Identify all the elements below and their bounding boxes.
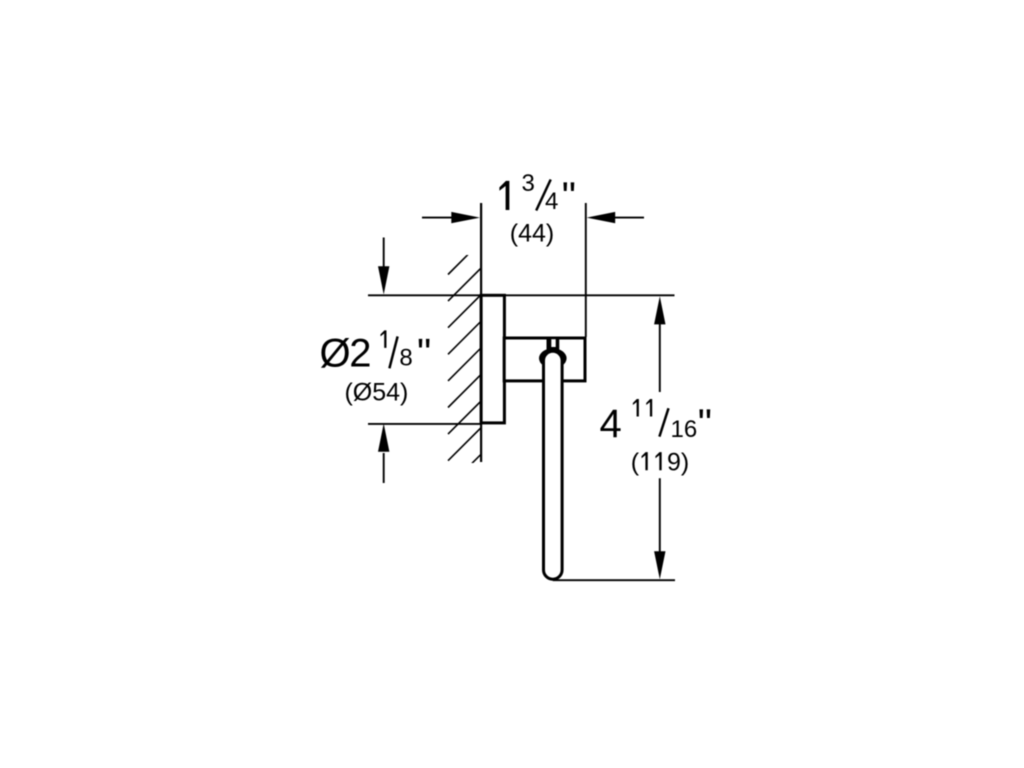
svg-text:8: 8 <box>399 345 412 372</box>
label 1 3/4" <box>499 170 576 219</box>
bracket arm <box>504 338 585 381</box>
left dimension up arrow <box>378 424 389 484</box>
left dimension down arrow <box>378 238 389 295</box>
svg-text:16: 16 <box>671 416 698 443</box>
svg-text:Ø: Ø <box>320 331 351 375</box>
wall line <box>480 203 482 462</box>
top dimension right arrow <box>587 212 644 223</box>
right dimension line lower segment with down arrow <box>654 478 665 579</box>
label 4 11/16" <box>600 399 712 446</box>
svg-text:4: 4 <box>545 188 558 215</box>
svg-text:9): 9) <box>667 448 689 476</box>
top dimension left arrow <box>422 212 480 223</box>
right extension line <box>585 203 587 337</box>
pivot pin <box>547 339 560 350</box>
svg-text:2: 2 <box>349 331 371 375</box>
wall plate <box>481 295 504 423</box>
label Ø2 1/8" <box>320 330 432 375</box>
svg-text:": " <box>417 331 431 375</box>
svg-text:": " <box>562 175 576 219</box>
wall hatching <box>448 242 481 488</box>
svg-text:": " <box>698 402 712 446</box>
svg-text:(Ø54): (Ø54) <box>344 378 408 406</box>
pivot ball <box>539 348 567 368</box>
right dimension line upper segment with up arrow <box>654 296 665 392</box>
ring <box>544 351 563 579</box>
svg-text:(: ( <box>631 448 640 476</box>
bottom-left horizontal line <box>368 423 482 425</box>
svg-text:3: 3 <box>522 170 535 197</box>
svg-text:4: 4 <box>600 402 622 446</box>
bottom horizontal line <box>553 579 675 581</box>
top horizontal line <box>368 294 675 296</box>
svg-text:(44): (44) <box>510 220 554 248</box>
label (119) <box>631 448 689 476</box>
